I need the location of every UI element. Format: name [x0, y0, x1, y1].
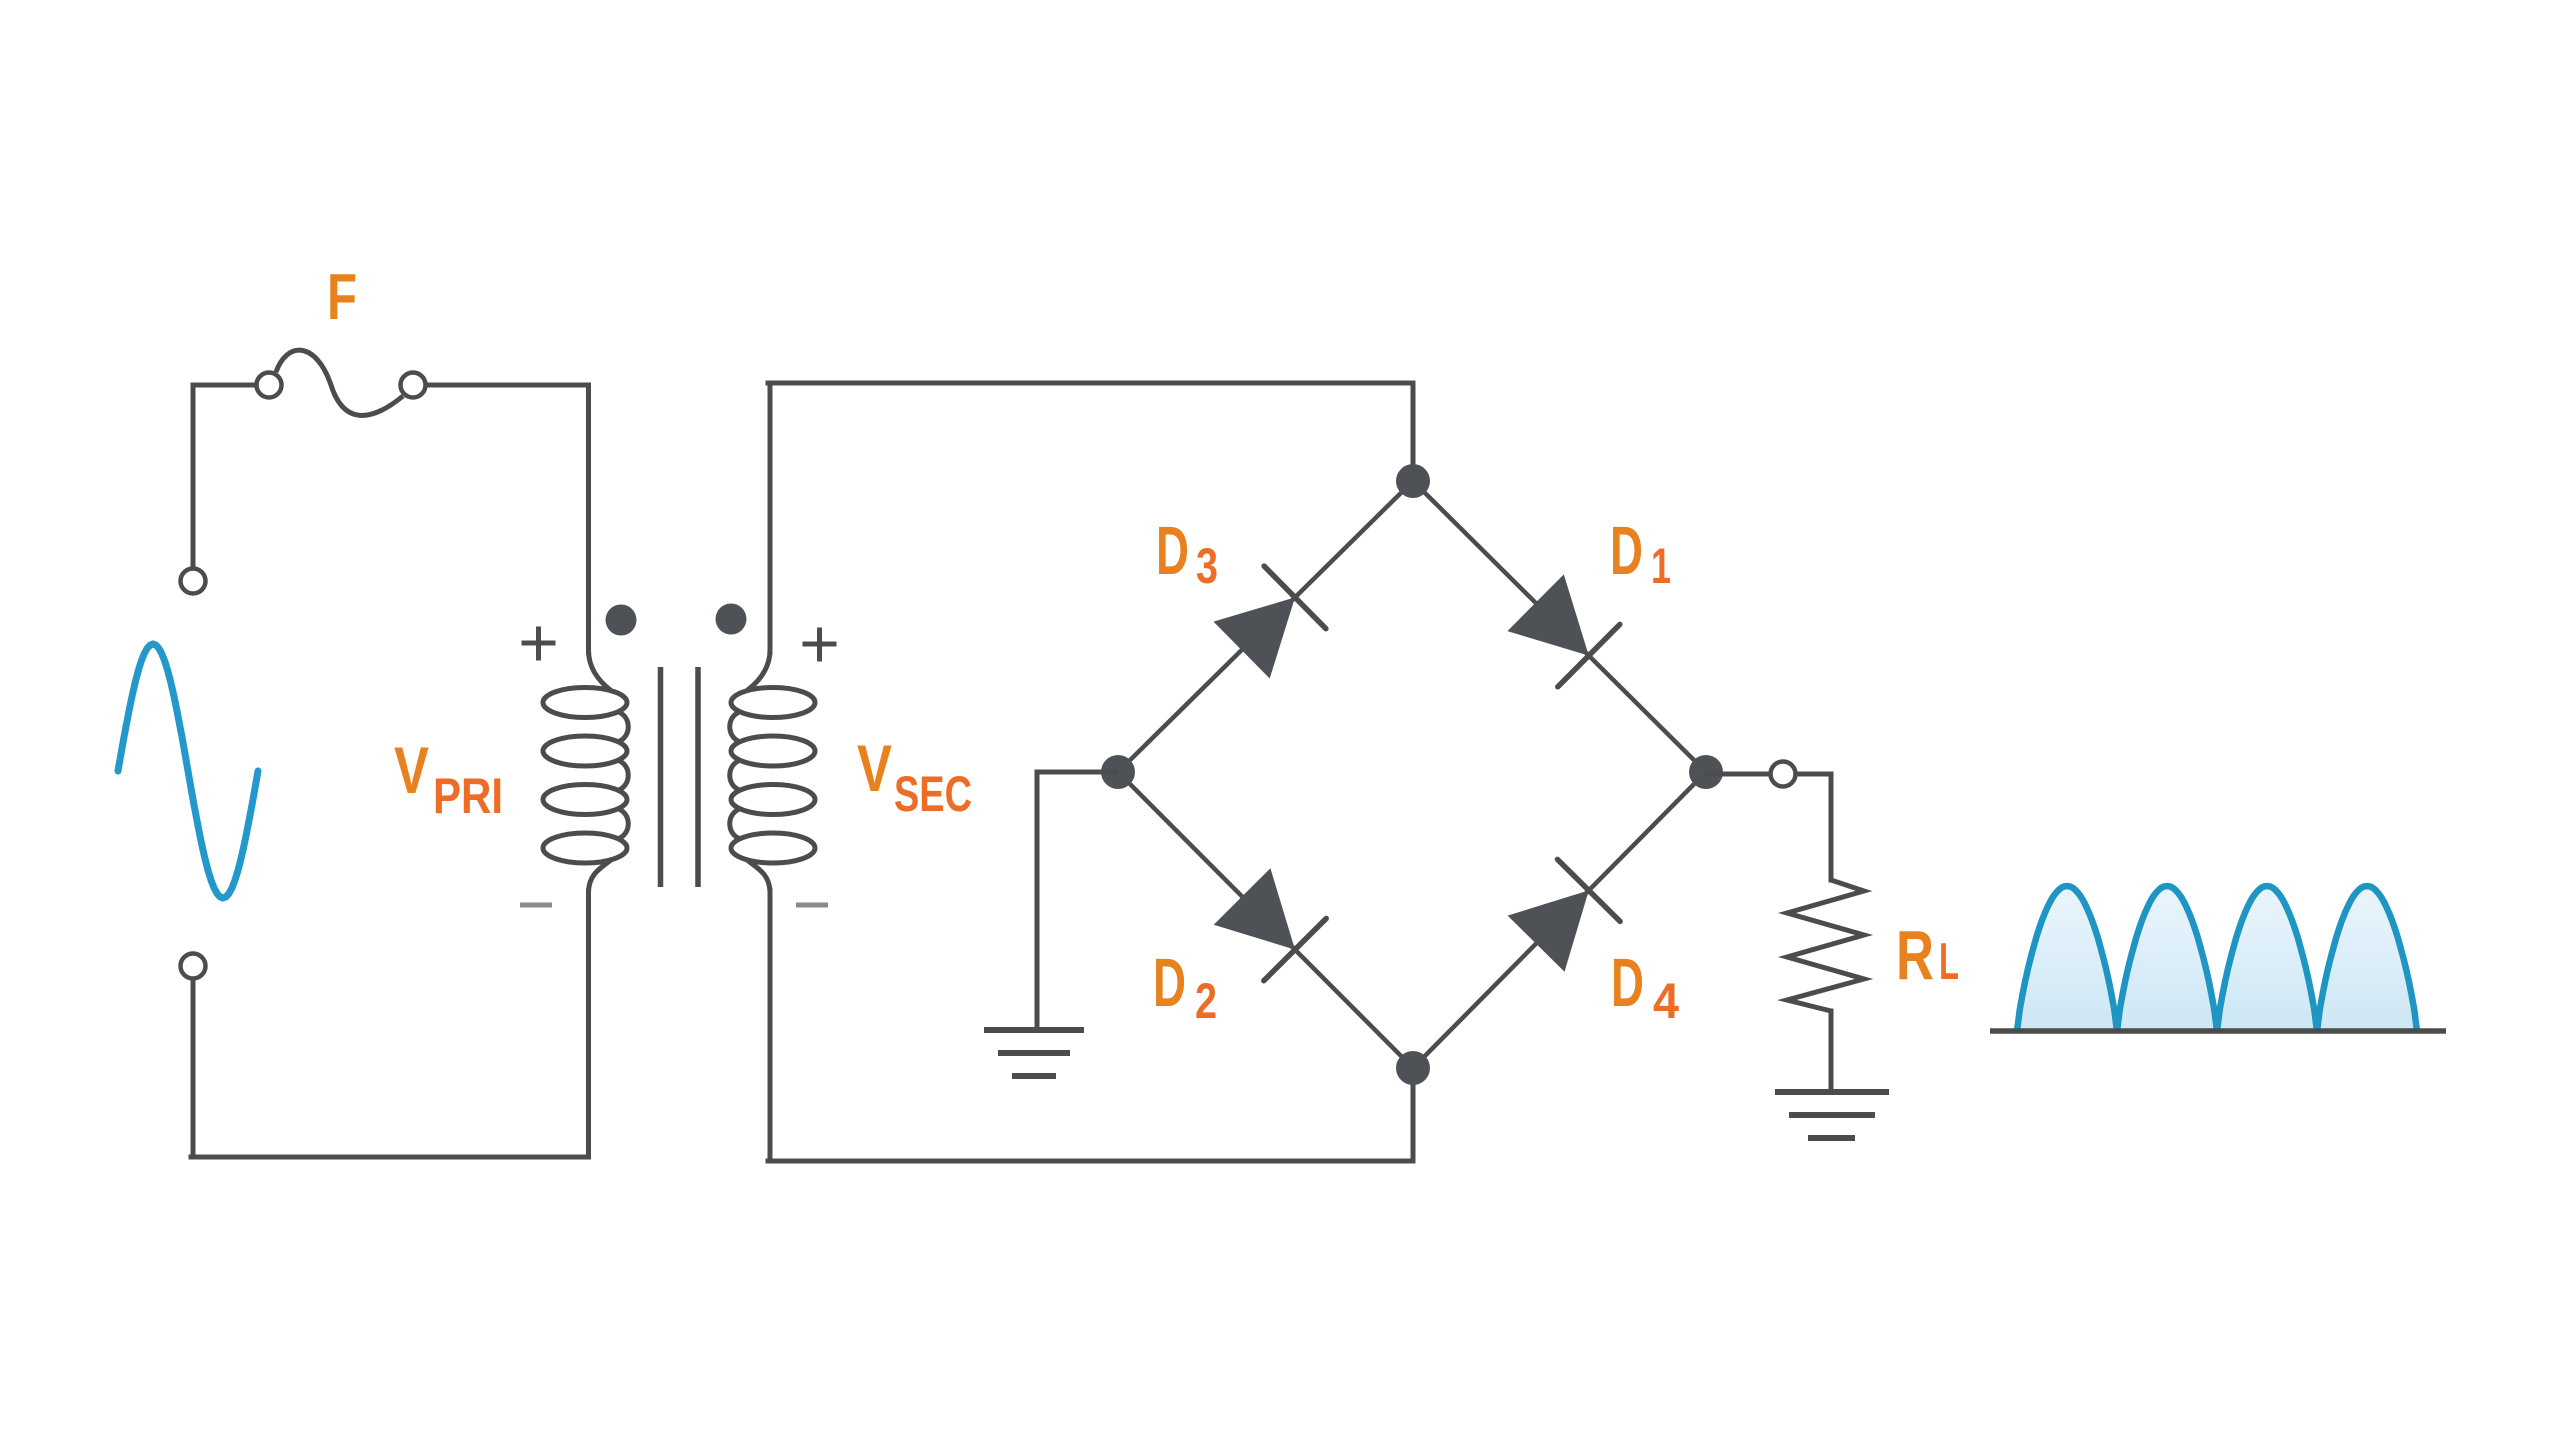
svg-text:V: V — [857, 731, 892, 805]
fuse F — [257, 373, 282, 398]
ground secondary — [984, 1027, 1084, 1033]
minus sign primary — [520, 903, 552, 908]
wire secondary top horizontal to bridge — [768, 381, 1413, 386]
AC source sine symbol — [118, 644, 258, 898]
wire bridge edge top-right — [1413, 481, 1706, 772]
wire bridge edge top-left — [1118, 481, 1413, 772]
wire fuse to transformer — [427, 383, 589, 388]
wire secondary bottom horizontal to bridge — [768, 1159, 1413, 1164]
plus sign primary — [524, 641, 553, 646]
svg-text:2: 2 — [1195, 973, 1217, 1029]
polarity dot primary — [606, 605, 637, 636]
polarity dot secondary — [716, 604, 747, 635]
svg-text:L: L — [1939, 933, 1959, 991]
svg-text:D: D — [1610, 512, 1643, 589]
ground load — [1775, 1089, 1889, 1095]
node left — [1101, 755, 1135, 789]
svg-text:PRI: PRI — [433, 768, 503, 824]
svg-text:D: D — [1611, 944, 1644, 1021]
node right — [1689, 755, 1723, 789]
diode D2 — [1214, 868, 1327, 981]
output terminal open circle — [1771, 762, 1796, 787]
svg-text:D: D — [1153, 944, 1186, 1021]
waveform baseline — [1990, 1028, 2446, 1034]
svg-text:D: D — [1156, 512, 1189, 589]
wire bridge edge bottom-left — [1118, 772, 1413, 1068]
wire top-left horizontal to fuse — [193, 383, 254, 388]
wire bridge bottom rise — [1411, 1068, 1416, 1161]
svg-text:F: F — [327, 260, 357, 333]
wire right node to output terminal — [1706, 772, 1769, 777]
wire primary bottom vertical — [586, 891, 591, 1157]
node top — [1396, 464, 1430, 498]
wire primary top vertical — [586, 385, 591, 652]
wire resistor to ground — [1829, 1011, 1834, 1089]
wire left vertical lower — [191, 980, 196, 1157]
svg-text:V: V — [394, 733, 429, 807]
svg-text:3: 3 — [1196, 538, 1218, 594]
wire bridge edge bottom-right — [1413, 772, 1706, 1068]
wire left node to ground — [1037, 770, 1116, 775]
wire left vertical upper — [191, 385, 196, 566]
terminal bottom open circle — [181, 954, 206, 979]
svg-text:1: 1 — [1651, 538, 1671, 594]
diode D4 — [1508, 859, 1621, 971]
node bottom — [1396, 1051, 1430, 1085]
svg-text:SEC: SEC — [894, 766, 972, 822]
diode D1 — [1507, 574, 1619, 686]
svg-text:4: 4 — [1653, 973, 1679, 1029]
plus sign secondary — [805, 642, 834, 647]
wire secondary top vertical — [768, 383, 773, 652]
wire secondary bottom vertical — [768, 891, 773, 1161]
output waveform rectified humps — [2017, 886, 2417, 1031]
wire bridge top drop — [1411, 383, 1416, 470]
wire output to resistor — [1797, 772, 1831, 777]
transformer secondary winding — [731, 688, 815, 718]
terminal top open circle — [181, 569, 206, 594]
minus sign secondary — [796, 903, 828, 908]
svg-text:R: R — [1896, 916, 1934, 994]
transformer primary winding — [543, 688, 627, 718]
transformer core — [658, 667, 664, 887]
resistor RL — [1787, 880, 1864, 1011]
diode D3 — [1214, 566, 1326, 678]
wire bottom-left horizontal — [191, 1155, 588, 1160]
